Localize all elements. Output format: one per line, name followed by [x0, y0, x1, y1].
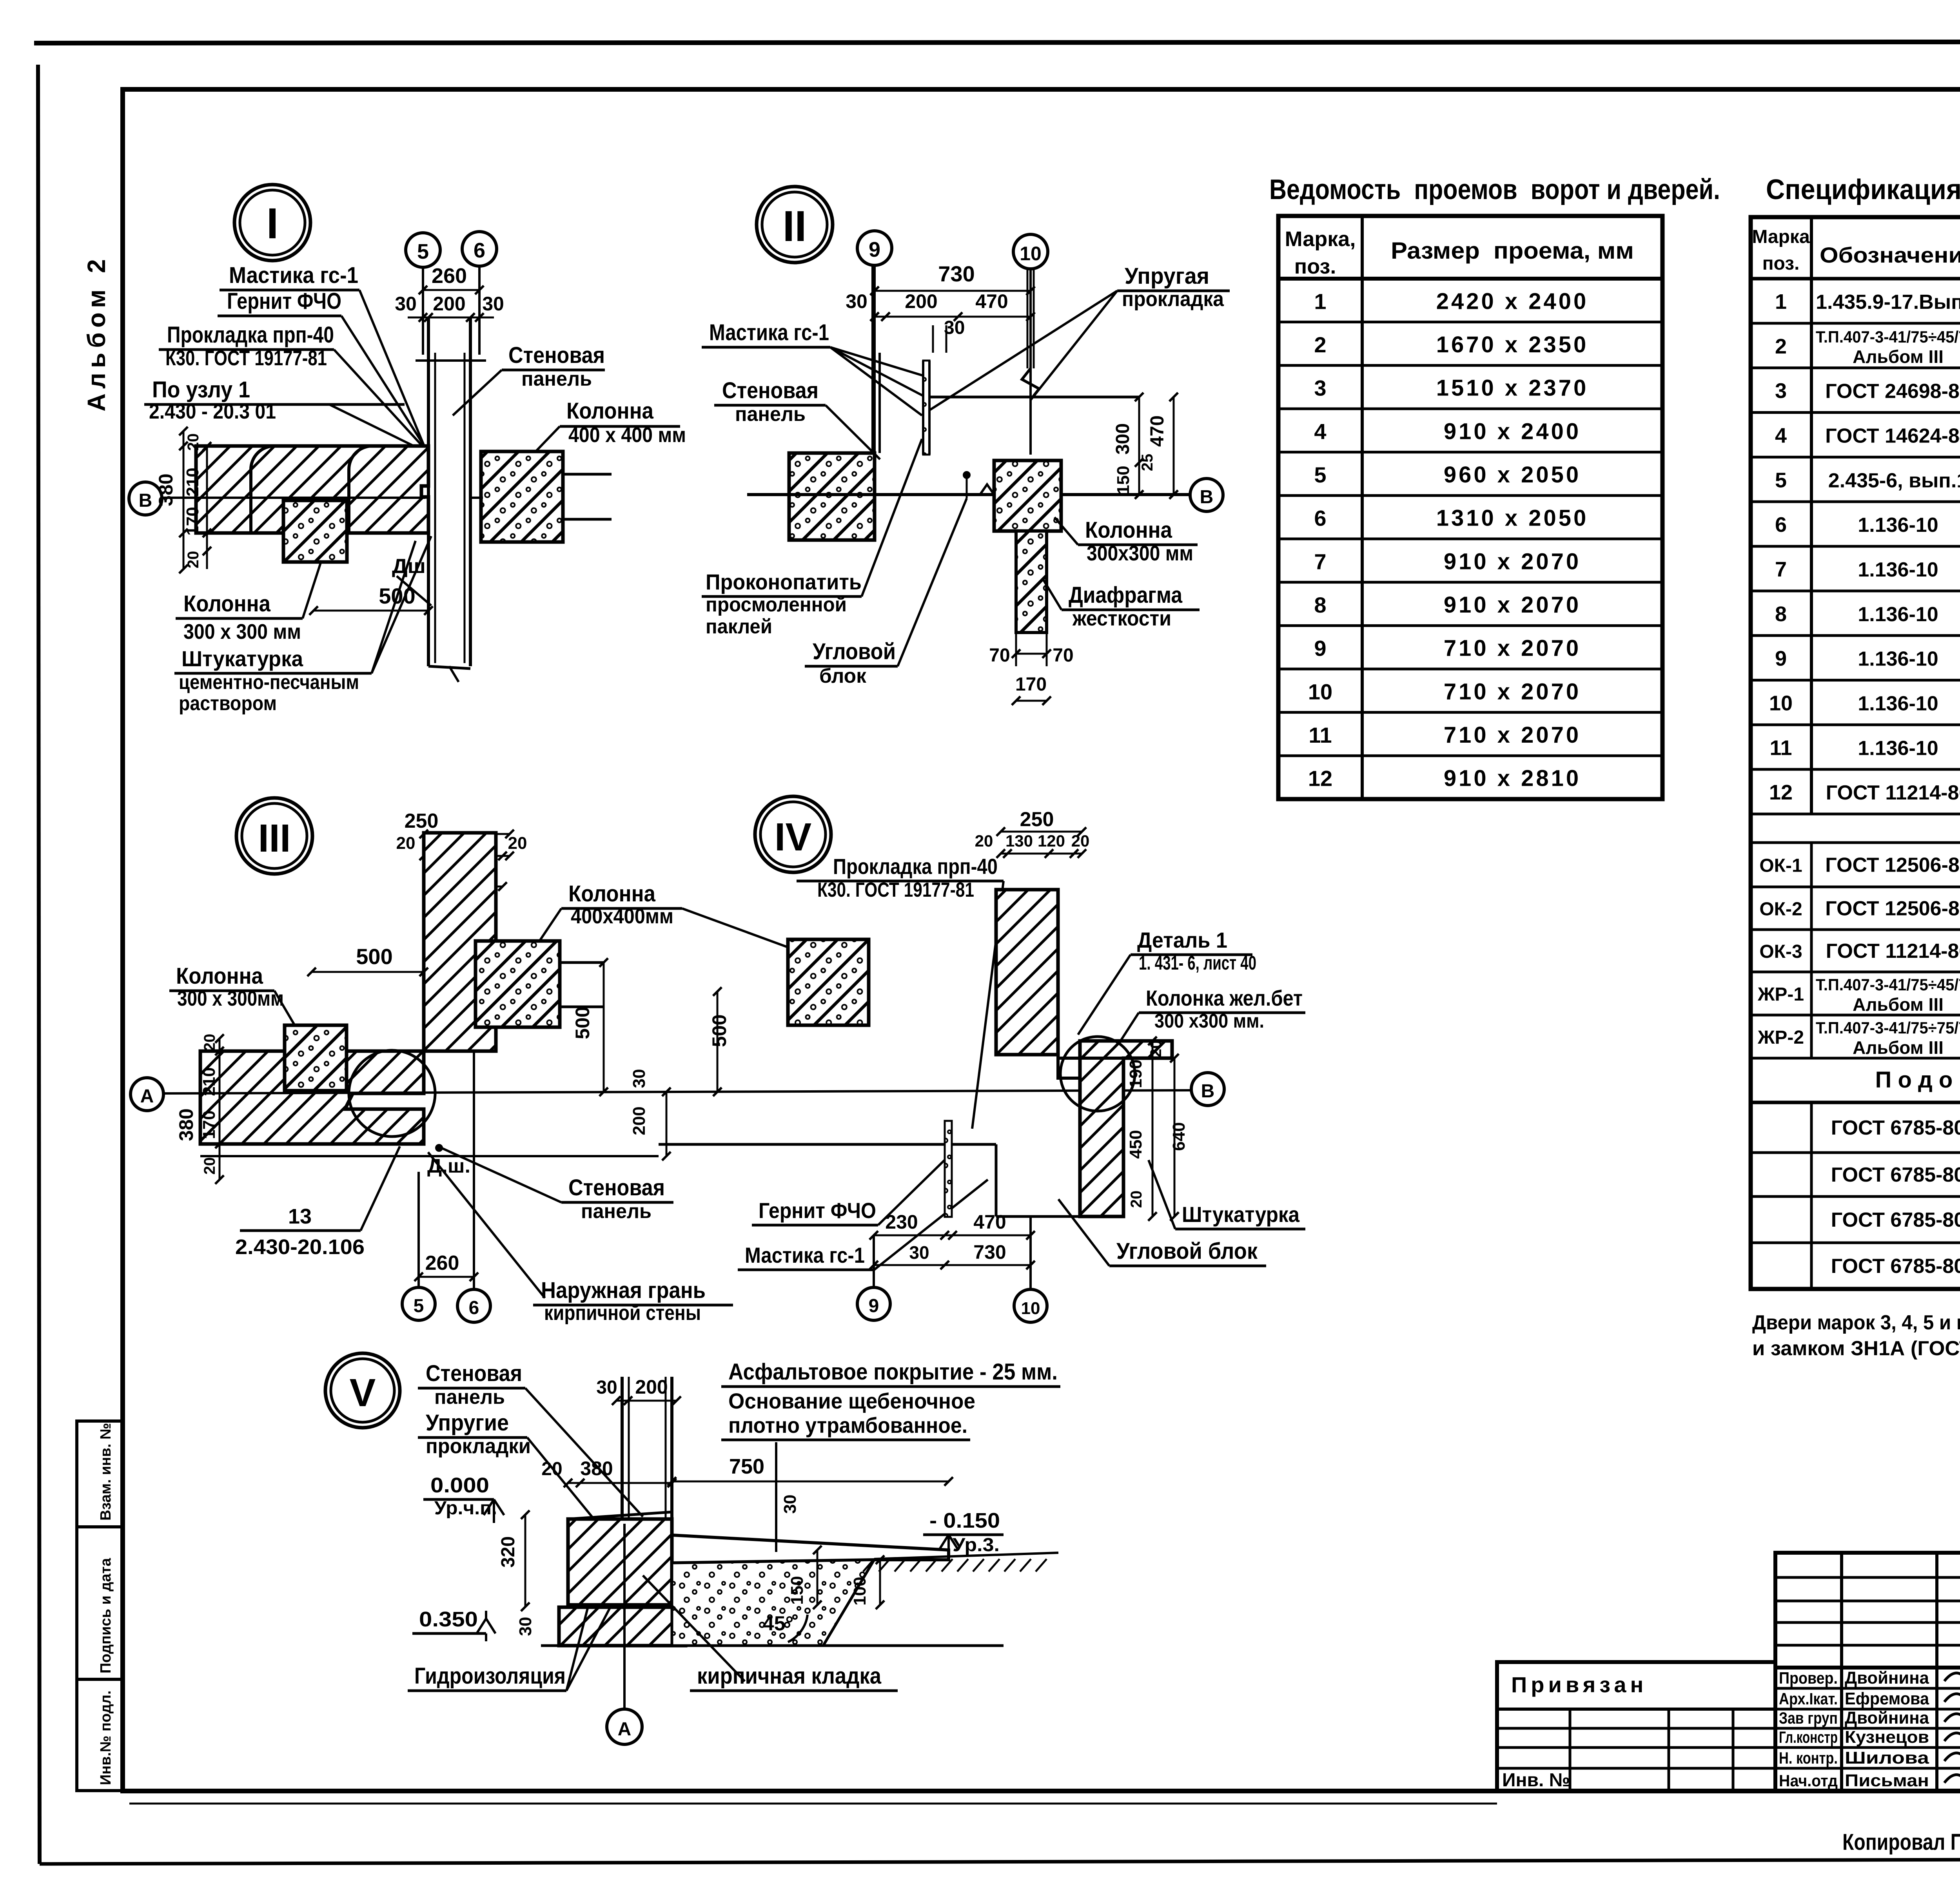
svg-text:210: 210	[183, 468, 202, 496]
svg-text:200: 200	[630, 1106, 649, 1135]
svg-text:10: 10	[1769, 691, 1793, 715]
axis circle 6	[462, 232, 497, 266]
foundation pad V	[559, 1607, 686, 1646]
svg-text:прокладка: прокладка	[1122, 287, 1224, 311]
svg-text:1510 x 2370: 1510 x 2370	[1436, 375, 1589, 401]
axis circle 5 III	[417, 1172, 420, 1287]
svg-text:9: 9	[1775, 647, 1787, 671]
svg-text:Гл.констр: Гл.констр	[1779, 1728, 1838, 1746]
svg-text:Стеновая: Стеновая	[508, 343, 605, 368]
outer border left line	[38, 65, 40, 1864]
svg-text:4: 4	[1314, 419, 1326, 444]
svg-text:ГОСТ 24698-81: ГОСТ 24698-81	[1825, 380, 1960, 403]
detail V node circle	[325, 1353, 400, 1428]
detail II node circle	[757, 187, 833, 263]
svg-text:1: 1	[1775, 290, 1787, 314]
svg-text:Штукатурка: Штукатурка	[1182, 1202, 1300, 1227]
svg-text:Обозначение: Обозначение	[1820, 243, 1960, 267]
svg-text:20: 20	[508, 834, 527, 853]
title block revision mini table	[1775, 1553, 1960, 1668]
svg-text:13: 13	[288, 1205, 312, 1228]
axis circle 10 II	[1013, 234, 1048, 269]
svg-text:I: I	[267, 199, 279, 248]
svg-text:ЖР-1: ЖР-1	[1757, 984, 1804, 1005]
svg-text:20: 20	[1128, 1191, 1145, 1208]
svg-text:II: II	[782, 202, 806, 250]
svg-text:1.136-10: 1.136-10	[1858, 514, 1938, 537]
svg-text:70: 70	[989, 645, 1010, 666]
gasket strip II	[923, 361, 929, 455]
svg-text:10: 10	[1020, 243, 1042, 265]
svg-text:Шилова: Шилова	[1845, 1748, 1929, 1767]
spec row ЖР-2	[1751, 1057, 1960, 1060]
podokonnik row 4	[1810, 1243, 1813, 1289]
axis circle 6 III	[473, 1051, 475, 1289]
column 300x300 below band	[283, 500, 347, 562]
svg-text:раствором: раствором	[179, 692, 277, 715]
svg-text:Колонна: Колонна	[183, 591, 271, 616]
asphalt wedge V	[672, 1535, 949, 1563]
svg-text:Проконопатить: Проконопатить	[706, 569, 862, 594]
svg-text:ГОСТ 14624-84: ГОСТ 14624-84	[1825, 424, 1960, 447]
svg-text:750: 750	[729, 1455, 764, 1478]
svg-text:Гидроизоляция: Гидроизоляция	[414, 1663, 566, 1689]
svg-text:цементно-песчаным: цементно-песчаным	[179, 671, 359, 694]
svg-text:2.435-6, вып.1: 2.435-6, вып.1	[1828, 469, 1960, 492]
svg-text:Колонна: Колонна	[568, 881, 656, 906]
axis circle 9 IV	[873, 1235, 875, 1287]
svg-text:ГОСТ 6785-80: ГОСТ 6785-80	[1831, 1209, 1960, 1231]
spec header	[1751, 277, 1960, 281]
privyazan box	[1497, 1662, 1775, 1791]
svg-text:150: 150	[788, 1576, 807, 1604]
corner circle III	[349, 1050, 435, 1137]
svg-text:Арх.Iкат.: Арх.Iкат.	[1779, 1690, 1838, 1708]
svg-text:20: 20	[1147, 1040, 1165, 1058]
svg-text:300х300 мм: 300х300 мм	[1087, 542, 1193, 565]
axis B circle IV	[1191, 1073, 1224, 1106]
panel joint arcs	[251, 446, 274, 533]
inner frame bottom double line	[129, 1803, 1497, 1805]
svg-text:Альбом III: Альбом III	[1853, 346, 1944, 367]
column 400x400 detail I	[481, 451, 563, 542]
svg-text:В: В	[139, 490, 152, 511]
svg-text:450: 450	[1126, 1130, 1145, 1158]
svg-text:12: 12	[1308, 766, 1332, 791]
right dim chain II	[1138, 397, 1140, 495]
ground steps IV	[659, 1143, 996, 1146]
left concrete square IV	[788, 939, 869, 1025]
svg-text:Наружная грань: Наружная грань	[541, 1278, 706, 1303]
left dim chain III	[219, 1039, 221, 1180]
svg-text:10: 10	[1021, 1299, 1040, 1318]
podokonnik row 2	[1751, 1195, 1960, 1198]
svg-text:ГОСТ 12506-81: ГОСТ 12506-81	[1825, 854, 1960, 877]
central brick strip IV	[996, 890, 1058, 1055]
axis circle 5	[406, 233, 440, 267]
svg-text:Зав груп: Зав груп	[1779, 1709, 1838, 1727]
outer border top line	[34, 42, 1960, 43]
svg-text:12: 12	[1769, 781, 1793, 804]
spec row ОК-1	[1751, 886, 1960, 888]
svg-text:Прокладка прп-40: Прокладка прп-40	[167, 322, 334, 348]
svg-text:ГОСТ 6785-80: ГОСТ 6785-80	[1831, 1164, 1960, 1186]
svg-text:710 x 2070: 710 x 2070	[1444, 679, 1581, 704]
svg-text:20: 20	[185, 551, 202, 569]
axis B circle II	[1190, 479, 1223, 511]
svg-text:4: 4	[1775, 424, 1787, 447]
svg-text:Взам. инв. №: Взам. инв. №	[98, 1423, 114, 1521]
svg-text:3: 3	[1314, 376, 1326, 401]
vedomost table grid	[1278, 216, 1662, 799]
svg-text:Гернит ФЧО: Гернит ФЧО	[759, 1198, 876, 1223]
svg-text:плотно утрамбованное.: плотно утрамбованное.	[728, 1413, 967, 1438]
corner block hatched IV	[1080, 1041, 1172, 1216]
svg-text:1310 x 2050: 1310 x 2050	[1436, 506, 1589, 531]
svg-text:470: 470	[973, 1211, 1006, 1233]
svg-text:500: 500	[356, 944, 392, 969]
column 300x300 II	[994, 460, 1061, 531]
svg-text:710 x 2070: 710 x 2070	[1444, 636, 1581, 661]
top of wall slope line V	[568, 1512, 672, 1519]
svg-text:6: 6	[469, 1298, 479, 1318]
svg-text:150: 150	[1114, 466, 1133, 494]
svg-text:9: 9	[869, 1296, 879, 1316]
small triangle mark II	[980, 484, 994, 495]
broken panel mark II	[1022, 368, 1039, 400]
svg-text:В: В	[1201, 1081, 1215, 1102]
axis circle 10 IV	[1029, 1216, 1032, 1289]
svg-text:20: 20	[185, 433, 202, 451]
svg-text:230: 230	[885, 1211, 918, 1233]
axis B circle	[129, 482, 162, 515]
svg-text:Альбом 2: Альбом 2	[82, 254, 111, 412]
svg-text:2.430-20.106: 2.430-20.106	[235, 1235, 365, 1259]
svg-text:панель: панель	[521, 368, 592, 390]
svg-text:8: 8	[1775, 602, 1787, 626]
svg-text:400 х 400 мм: 400 х 400 мм	[568, 423, 686, 447]
svg-text:ОК-1: ОК-1	[1759, 856, 1802, 876]
signatures squiggles	[1944, 1668, 1960, 1683]
svg-text:просмоленной: просмоленной	[706, 593, 847, 616]
svg-text:30: 30	[596, 1377, 617, 1398]
svg-text:5: 5	[1314, 462, 1326, 487]
svg-text:1. 431- 6, лист 40: 1. 431- 6, лист 40	[1139, 952, 1256, 974]
svg-text:Штукатурка: Штукатурка	[181, 646, 303, 671]
svg-text:Диафрагма: Диафрагма	[1069, 582, 1183, 608]
svg-text:300 х 300 мм: 300 х 300 мм	[183, 620, 301, 644]
axis A-B horizontal line	[163, 1090, 1190, 1093]
svg-text:А: А	[618, 1719, 632, 1740]
right dim 500 vertical III	[603, 963, 605, 1092]
svg-text:9: 9	[869, 238, 880, 261]
svg-text:380: 380	[580, 1457, 613, 1479]
svg-text:1.435.9-17.Вып.3: 1.435.9-17.Вып.3	[1816, 291, 1960, 314]
svg-text:320: 320	[498, 1536, 519, 1568]
svg-text:Альбом III: Альбом III	[1853, 1037, 1944, 1058]
svg-text:30: 30	[909, 1242, 929, 1263]
svg-text:К30. ГОСТ 19177-81: К30. ГОСТ 19177-81	[165, 346, 327, 370]
svg-text:ГОСТ 6785-80: ГОСТ 6785-80	[1831, 1255, 1960, 1278]
svg-text:30: 30	[780, 1495, 800, 1514]
svg-text:730: 730	[938, 261, 975, 286]
svg-text:500: 500	[572, 1006, 593, 1039]
svg-text:500: 500	[708, 1014, 730, 1047]
svg-text:панель: панель	[434, 1386, 505, 1409]
svg-text:Спецификация элементов запол: Спецификация элементов заполнения проемо…	[1766, 174, 1960, 205]
svg-text:3: 3	[1775, 379, 1787, 403]
bottom panel line III	[200, 1155, 659, 1157]
svg-text:Прокладка прп-40: Прокладка прп-40	[833, 854, 998, 879]
left dim chain detail I	[183, 431, 185, 569]
svg-text:1.136-10: 1.136-10	[1858, 558, 1938, 581]
left panel block II	[789, 453, 875, 540]
spec row ОК-2	[1751, 928, 1960, 931]
svg-text:Марка,: Марка,	[1285, 227, 1356, 251]
svg-text:130: 130	[1005, 832, 1033, 850]
svg-text:кирпичная кладка: кирпичная кладка	[697, 1663, 882, 1689]
svg-text:Гернит ФЧО: Гернит ФЧО	[227, 288, 341, 314]
svg-text:1670 x 2350: 1670 x 2350	[1436, 332, 1589, 357]
svg-text:П о д о к о н н ы е д о с к: П о д о к о н н ы е д о с к и	[1875, 1067, 1960, 1093]
svg-text:Двойнина: Двойнина	[1845, 1668, 1929, 1688]
svg-text:170: 170	[183, 507, 202, 535]
signer row Н. контр.	[1775, 1746, 1960, 1749]
small circle detail IV	[1060, 1037, 1135, 1111]
svg-text:730: 730	[973, 1241, 1006, 1263]
svg-text:ОК-3: ОК-3	[1759, 941, 1802, 962]
svg-text:1.136-10: 1.136-10	[1858, 692, 1938, 715]
svg-text:Колонка жел.бет: Колонка жел.бет	[1146, 986, 1303, 1010]
svg-text:30: 30	[846, 290, 867, 312]
svg-text:Упругие: Упругие	[426, 1410, 509, 1436]
axis 5 line	[422, 267, 424, 355]
svg-text:260: 260	[432, 264, 467, 288]
podokonnik row 1	[1751, 1151, 1960, 1154]
svg-text:910 x 2400: 910 x 2400	[1444, 419, 1581, 444]
spec row ЖР-1	[1751, 1014, 1960, 1017]
svg-text:Т.П.407-3-41/75÷45/75,: Т.П.407-3-41/75÷45/75,	[1816, 975, 1960, 994]
far right dim 500 III	[717, 992, 719, 1092]
svg-text:Мастика гс-1: Мастика гс-1	[745, 1243, 865, 1267]
svg-text:Н. контр.: Н. контр.	[1779, 1749, 1838, 1767]
horizontal wall band detail I	[196, 446, 428, 533]
svg-text:5: 5	[414, 1296, 424, 1316]
svg-text:Деталь 1: Деталь 1	[1137, 928, 1227, 952]
svg-text:Нач.отд: Нач.отд	[1779, 1771, 1838, 1790]
svg-text:А: А	[140, 1086, 154, 1107]
svg-text:45°: 45°	[763, 1612, 794, 1635]
svg-text:20: 20	[975, 832, 993, 850]
svg-text:20: 20	[201, 1157, 218, 1175]
svg-text:Двери марок 3, 4, 5 и ворота 1: Двери марок 3, 4, 5 и ворота 1 и 2 обору…	[1752, 1311, 1960, 1334]
svg-text:5: 5	[417, 240, 429, 263]
axis 6 line	[478, 266, 481, 355]
wall panel edge lines II	[871, 265, 874, 453]
svg-text:блок: блок	[819, 665, 867, 687]
svg-text:Письман: Письман	[1845, 1771, 1929, 1790]
svg-text:IV: IV	[775, 815, 812, 859]
svg-text:Марка: Марка	[1752, 227, 1810, 247]
svg-text:панель: панель	[581, 1200, 652, 1223]
left stamp column	[77, 1421, 123, 1791]
svg-text:380: 380	[175, 1108, 197, 1141]
svg-text:260: 260	[425, 1252, 459, 1274]
upper horizontal line II	[929, 396, 1139, 399]
svg-text:200: 200	[905, 290, 937, 312]
svg-text:200: 200	[433, 293, 465, 315]
gravel base V	[672, 1560, 874, 1646]
svg-text:Угловой: Угловой	[813, 639, 896, 664]
ground line II	[747, 493, 994, 496]
svg-text:Асфальтовое покрытие - 25 мм.: Асфальтовое покрытие - 25 мм.	[728, 1359, 1058, 1385]
svg-text:470: 470	[1147, 415, 1168, 447]
svg-text:панель: панель	[735, 403, 806, 426]
axis 9 line II	[873, 265, 876, 495]
svg-text:Ведомость проемов ворот и дв: Ведомость проемов ворот и дверей.	[1269, 174, 1720, 205]
svg-text:20: 20	[201, 1034, 218, 1051]
svg-text:11: 11	[1308, 723, 1332, 747]
svg-text:Мастика гс-1: Мастика гс-1	[229, 263, 358, 288]
svg-text:Провер.: Провер.	[1779, 1669, 1838, 1687]
svg-text:Ефремова: Ефремова	[1845, 1689, 1929, 1708]
svg-text:1: 1	[1314, 289, 1326, 314]
svg-text:7: 7	[1775, 558, 1787, 581]
signer row Нач.отд	[1775, 1767, 1960, 1770]
svg-text:В: В	[1200, 487, 1214, 508]
svg-text:- 0.150: - 0.150	[929, 1509, 1000, 1532]
horizontal band III	[200, 1051, 424, 1144]
axis 10 line II	[1029, 269, 1032, 455]
svg-text:Колонна: Колонна	[566, 398, 654, 424]
svg-text:710 x 2070: 710 x 2070	[1444, 722, 1581, 748]
svg-text:К30. ГОСТ 19177-81: К30. ГОСТ 19177-81	[817, 879, 974, 901]
svg-text:ГОСТ 11214-86: ГОСТ 11214-86	[1826, 781, 1960, 804]
svg-text:6: 6	[1314, 506, 1326, 531]
svg-text:210: 210	[200, 1067, 219, 1096]
svg-text:Т.П.407-3-41/75÷45/75,: Т.П.407-3-41/75÷45/75,	[1816, 328, 1960, 346]
svg-text:20: 20	[541, 1459, 562, 1479]
bottom line V	[541, 1644, 1004, 1647]
foundation beam V	[568, 1519, 672, 1605]
svg-text:Привязан: Привязан	[1511, 1672, 1647, 1697]
svg-text:2: 2	[1314, 332, 1326, 357]
svg-text:Копировал Подлевская: Копировал Подлевская	[1842, 1829, 1960, 1855]
svg-text:30: 30	[395, 293, 417, 315]
svg-text:70: 70	[1053, 645, 1073, 666]
svg-text:20: 20	[396, 834, 416, 853]
svg-text:Стеновая: Стеновая	[426, 1361, 522, 1386]
inner column edge lines IV	[1058, 1057, 1172, 1060]
svg-text:Ур.3.: Ур.3.	[953, 1535, 1000, 1555]
detail IV node circle	[755, 796, 831, 872]
svg-text:Т.П.407-3-41/75÷75/75,: Т.П.407-3-41/75÷75/75,	[1816, 1019, 1960, 1037]
svg-text:300: 300	[1112, 423, 1133, 455]
svg-text:300 х 300мм: 300 х 300мм	[177, 987, 284, 1010]
svg-text:1.136-10: 1.136-10	[1858, 603, 1938, 626]
svg-text:6: 6	[1775, 513, 1787, 537]
panel bottom tick	[428, 666, 470, 669]
svg-text:Упругая: Упругая	[1125, 263, 1209, 289]
svg-text:200: 200	[635, 1376, 668, 1398]
outer border bottom line	[40, 1858, 1960, 1864]
svg-text:7: 7	[1314, 549, 1326, 574]
svg-text:Размер проема, мм: Размер проема, мм	[1391, 237, 1634, 264]
detail1 corner piece IV	[996, 1055, 1082, 1078]
first window row verticals	[1810, 843, 1813, 887]
svg-text:2: 2	[1775, 335, 1787, 358]
svg-text:25: 25	[1139, 454, 1156, 471]
svg-text:170: 170	[1015, 674, 1047, 695]
svg-text:380: 380	[155, 473, 177, 506]
axis circle 9 II	[857, 231, 892, 265]
signer row Гл.констр	[1775, 1727, 1960, 1730]
svg-text:9: 9	[1314, 636, 1326, 661]
svg-text:ЖР-2: ЖР-2	[1757, 1027, 1804, 1048]
podokonnik row 3	[1751, 1242, 1960, 1244]
wall panel vertical strip detail I	[427, 317, 430, 666]
svg-text:ГОСТ 11214-86: ГОСТ 11214-86	[1826, 940, 1960, 963]
svg-text:2420 x 2400: 2420 x 2400	[1436, 288, 1589, 314]
column 400x400 III	[475, 941, 560, 1027]
spec rows grid	[1751, 322, 1960, 324]
svg-text:V: V	[350, 1371, 376, 1415]
svg-text:250: 250	[1020, 808, 1054, 831]
svg-text:поз.: поз.	[1762, 253, 1800, 274]
svg-text:910 x 2070: 910 x 2070	[1444, 549, 1581, 574]
brick wall strip III	[424, 833, 496, 1051]
svg-text:100: 100	[850, 1577, 869, 1605]
detail III node circle	[236, 798, 312, 874]
svg-text:По узлу 1: По узлу 1	[152, 377, 250, 402]
svg-text:Угловой блок: Угловой блок	[1116, 1238, 1258, 1264]
svg-text:Инв. №: Инв. №	[1502, 1770, 1570, 1791]
right dims 30 200 III	[666, 1092, 668, 1156]
spec table outer	[1751, 217, 1960, 1289]
svg-text:III: III	[258, 816, 290, 860]
svg-text:прокладки: прокладки	[426, 1434, 531, 1458]
svg-text:30: 30	[482, 293, 504, 315]
axis B line through band	[162, 497, 425, 499]
svg-text:1.136-10: 1.136-10	[1858, 648, 1938, 671]
svg-text:кирпичной стены: кирпичной стены	[544, 1301, 701, 1325]
svg-text:0.000: 0.000	[430, 1474, 489, 1497]
svg-text:Стеновая: Стеновая	[722, 378, 818, 403]
svg-text:1.136-10: 1.136-10	[1858, 737, 1938, 760]
svg-text:Двойнина: Двойнина	[1845, 1708, 1929, 1728]
column 300x300 III	[285, 1025, 347, 1091]
svg-text:Колонна: Колонна	[176, 963, 263, 989]
svg-text:300 х300 мм.: 300 х300 мм.	[1154, 1010, 1264, 1032]
diafragma strip II	[1016, 531, 1047, 633]
svg-text:Подпись и дата: Подпись и дата	[98, 1558, 114, 1673]
svg-text:960 x 2050: 960 x 2050	[1444, 462, 1581, 488]
svg-text:8: 8	[1314, 593, 1326, 617]
signer row Зав груп	[1775, 1708, 1960, 1711]
svg-text:ГОСТ 12506-81: ГОСТ 12506-81	[1825, 897, 1960, 920]
svg-text:ГОСТ 6785-80: ГОСТ 6785-80	[1831, 1117, 1960, 1139]
svg-text:паклей: паклей	[706, 615, 772, 638]
svg-text:ОК-2: ОК-2	[1759, 899, 1802, 920]
svg-text:190: 190	[1126, 1059, 1145, 1088]
leader lines to joint	[359, 290, 425, 449]
svg-text:Инв.№ подл.: Инв.№ подл.	[98, 1690, 114, 1785]
wall panel V	[621, 1377, 624, 1524]
bottom dims 70 70 II	[1015, 633, 1017, 666]
svg-text:10: 10	[1308, 679, 1332, 704]
detail I node circle	[234, 185, 310, 261]
svg-text:6: 6	[474, 239, 485, 262]
